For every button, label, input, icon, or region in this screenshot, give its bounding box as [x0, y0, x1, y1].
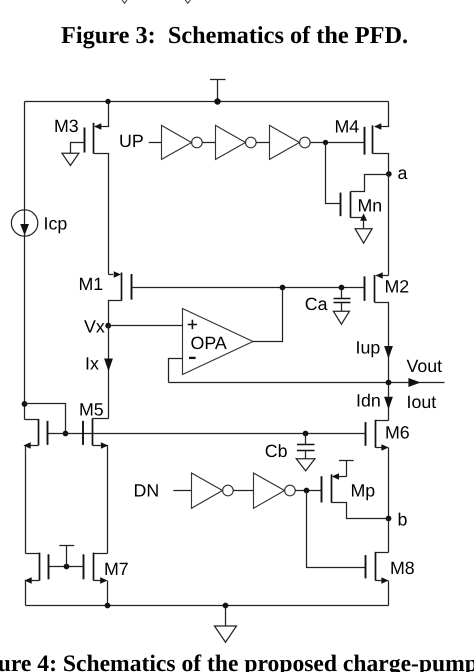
node: VDD stub junction	[214, 98, 220, 104]
inverter (DN chain 1)	[192, 473, 234, 508]
node: mirror gate junction	[63, 431, 69, 437]
svg-text:UP: UP	[119, 131, 144, 151]
svg-text:Cb: Cb	[265, 441, 288, 461]
svg-text:M8: M8	[390, 558, 415, 578]
node Vx	[84, 316, 111, 336]
transistor (left mirror lower)	[24, 553, 48, 606]
wire: gate line mirror to M6	[48, 433, 365, 435]
wire: node b to M8 drain	[388, 519, 390, 553]
current source Icp	[11, 210, 67, 236]
node Vout	[386, 380, 392, 386]
node: Cb tap junction	[303, 431, 309, 437]
svg-text:M4: M4	[335, 117, 360, 137]
transistor Mn	[326, 143, 383, 229]
transistor M8	[366, 552, 415, 606]
transistor M4	[335, 102, 389, 175]
node: M3 source junction	[105, 99, 110, 104]
caption: Figure 4 (cut off)	[0, 651, 474, 672]
svg-text:Mp: Mp	[351, 480, 376, 500]
svg-text:Figure 4: Schematics of the pr: Figure 4: Schematics of the proposed cha…	[0, 651, 474, 672]
svg-text:Mn: Mn	[358, 196, 383, 216]
wire: Vout arrowhead	[408, 378, 420, 387]
capacitor Ca	[305, 288, 351, 315]
wire: gate line M1 to M2	[132, 287, 365, 289]
transistor M3	[54, 102, 109, 275]
wire: Ix branch with current arrow	[85, 326, 113, 419]
wire: DN out to Mp gate	[295, 490, 321, 492]
wire: right rail, node a to M2	[388, 175, 390, 276]
ground tip remnant (top, cut off)	[185, 0, 190, 3]
op-amp U1 OPA	[183, 309, 254, 375]
node: ground stem junction	[223, 603, 229, 609]
wire: DN to M8 gate	[307, 491, 366, 568]
label Iout	[407, 392, 437, 412]
svg-text:Figure 3: Schematics of the P: Figure 3: Schematics of the PFD.	[61, 22, 408, 49]
label DN	[134, 481, 160, 501]
node: lower gate junction	[64, 564, 70, 570]
inverter (UP chain 1)	[162, 125, 203, 159]
transistor M7	[84, 553, 129, 606]
wire: OPA output to gate line	[253, 288, 283, 342]
wire	[233, 490, 253, 492]
node: UP/Mn gate junction	[323, 140, 328, 145]
wire: inverter out to M4 gate	[310, 142, 364, 144]
svg-text:Icp: Icp	[44, 214, 68, 234]
inverter (UP chain 2)	[216, 125, 257, 159]
svg-text:Idn: Idn	[356, 390, 381, 410]
transistor M5	[79, 400, 109, 554]
node: Ca tap junction	[339, 285, 345, 291]
svg-text:DN: DN	[134, 481, 160, 501]
caption: Figure 3 title	[61, 22, 408, 49]
wire: left rail (VDD to mirror)	[24, 102, 26, 420]
wire	[256, 142, 269, 144]
ground tip remnant (top left, cut off)	[122, 0, 127, 3]
transistor M6	[366, 420, 410, 519]
label UP	[119, 131, 144, 151]
wire: bottom rail	[26, 605, 389, 607]
ground (Mn source)	[355, 229, 372, 244]
label Vout	[407, 356, 443, 376]
svg-text:Ix: Ix	[85, 354, 99, 374]
svg-text:M5: M5	[79, 400, 104, 420]
wire	[202, 142, 215, 144]
svg-text:Iup: Iup	[356, 337, 381, 357]
node: M7 source junction	[105, 603, 111, 609]
svg-text:OPA: OPA	[191, 333, 227, 353]
wire: OPA - input feedback	[169, 359, 183, 383]
svg-text:a: a	[398, 163, 408, 183]
wire: DN input	[173, 490, 191, 492]
power stub (Mp source)	[339, 461, 354, 477]
wire: feedback / Vout line	[169, 382, 445, 384]
ground (Ca)	[333, 311, 349, 324]
ground (M3 gate)	[62, 153, 79, 165]
wire: rail to mirror gate tie	[25, 404, 66, 434]
svg-text:b: b	[398, 509, 408, 529]
svg-text:M2: M2	[385, 277, 410, 297]
wire: node a to Mn drain	[351, 175, 389, 192]
wire: mirror gate tie (lower pair)	[49, 566, 84, 568]
ground (main)	[215, 606, 237, 643]
svg-text:M7: M7	[104, 559, 129, 579]
wire: Iup current arrow	[356, 337, 393, 358]
capacitor Cb	[265, 434, 315, 461]
svg-text:Vx: Vx	[84, 316, 105, 336]
node: OPA output junction	[280, 285, 286, 291]
wire: UP input	[149, 142, 162, 144]
inverter (DN chain 2)	[254, 473, 296, 508]
svg-text:M1: M1	[79, 274, 104, 294]
svg-text:Vout: Vout	[407, 356, 443, 376]
power VDD stub	[210, 80, 226, 102]
node: DN/M8 gate junction	[304, 488, 310, 494]
ground (Cb)	[296, 459, 315, 471]
inverter (UP chain 3)	[270, 125, 311, 159]
svg-text:Ca: Ca	[305, 294, 328, 314]
power stub (lower mirror gate bias)	[59, 546, 74, 567]
wire: Idn current arrow	[356, 390, 393, 410]
node b	[386, 509, 408, 529]
transistor M1	[79, 271, 132, 325]
transistor Mp	[322, 473, 389, 518]
wire: Vx to OPA + input	[109, 325, 183, 327]
node: left rail mirror tap	[22, 401, 28, 407]
svg-text:M6: M6	[385, 423, 410, 443]
svg-text:Iout: Iout	[407, 392, 437, 412]
svg-text:M3: M3	[54, 116, 79, 136]
wire: top VDD rail	[25, 101, 389, 103]
transistor M2	[365, 272, 410, 420]
node a	[386, 163, 408, 183]
transistor (left mirror upper)	[23, 419, 47, 554]
